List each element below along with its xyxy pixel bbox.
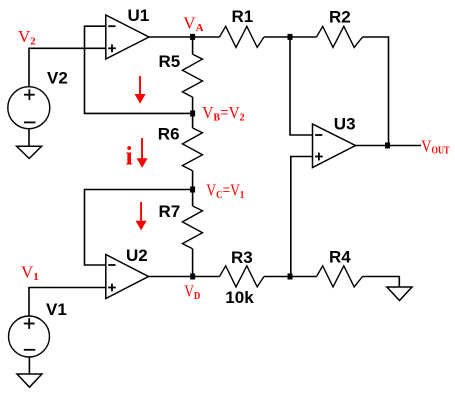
wire R6 to node VC <box>192 171 194 190</box>
svg-text:R5: R5 <box>159 52 181 71</box>
svg-text:U3: U3 <box>334 114 356 133</box>
wire R5 to node VB <box>192 97 194 113</box>
wire V2 to ground <box>28 129 30 146</box>
wire junction to R4 <box>290 276 317 278</box>
node VD <box>184 274 200 303</box>
resistor R6 <box>158 125 203 171</box>
wire U1 feedback (minus input to node VB) <box>85 26 191 113</box>
svg-text:U2: U2 <box>126 246 148 265</box>
wire R7 to node VD <box>192 249 194 277</box>
svg-text:R6: R6 <box>158 125 180 144</box>
wire V2 to U1 plus input <box>29 48 106 86</box>
resistor R1 <box>220 7 265 48</box>
source V2 <box>8 69 68 129</box>
current arrow through R5 <box>135 76 146 104</box>
wire U1 output to node VA <box>149 36 190 38</box>
node VC <box>190 180 244 201</box>
svg-text:VC=V1: VC=V1 <box>206 180 244 201</box>
node R1-R2 junction <box>288 34 293 40</box>
node VA <box>183 14 203 40</box>
wire R4 to ground <box>363 277 400 288</box>
svg-text:V1: V1 <box>46 300 67 319</box>
wire R1 to R1-R2 junction <box>264 36 290 38</box>
op-amp U2 <box>106 246 149 299</box>
svg-text:i: i <box>126 142 133 171</box>
wire R3 to R3-R4 junction <box>264 276 290 278</box>
wire VB to R6 <box>192 113 194 128</box>
resistor R2 <box>317 7 363 47</box>
ground at R4 <box>387 287 412 301</box>
resistor R3 value 10k <box>220 248 265 307</box>
svg-text:R3: R3 <box>231 248 253 267</box>
wire VC to R7 <box>192 190 194 207</box>
wire V1 to U2 plus input <box>29 288 106 317</box>
svg-text:R7: R7 <box>159 202 181 221</box>
resistor R5 <box>159 52 203 97</box>
wire V1 to ground <box>28 357 30 374</box>
svg-text:V2: V2 <box>47 69 68 88</box>
node VB <box>190 103 245 124</box>
svg-text:10k: 10k <box>225 288 254 307</box>
wire U2 feedback (node VC to U2 minus input) <box>85 190 193 266</box>
wire junction to U3 minus input <box>290 37 313 135</box>
op-amp U3 <box>313 114 356 167</box>
op-amp U1 <box>106 6 149 59</box>
svg-text:R1: R1 <box>232 7 254 26</box>
svg-text:R2: R2 <box>329 7 351 26</box>
resistor R7 <box>159 202 203 249</box>
current arrow through R6 <box>137 138 148 168</box>
ground at V2 <box>17 146 42 158</box>
resistor R4 <box>317 247 363 287</box>
wire VD to R3 <box>193 276 220 278</box>
svg-text:R4: R4 <box>329 247 351 266</box>
wire VA to R1 <box>193 36 220 38</box>
wire U2 output to node VD <box>149 276 191 278</box>
node U3 output junction <box>385 143 390 149</box>
ground at V1 <box>17 374 42 387</box>
svg-text:U1: U1 <box>128 6 150 25</box>
source V1 <box>9 300 67 357</box>
wire R2 to U3 output junction <box>363 37 389 146</box>
wire U3 output to VOUT <box>356 145 422 147</box>
current arrow through R7 <box>136 202 147 230</box>
wire junction to R2 <box>290 36 317 38</box>
wire VA down to R5 <box>192 37 194 54</box>
svg-text:VB=V2: VB=V2 <box>202 103 245 124</box>
node R3-R4 junction <box>288 274 293 280</box>
wire junction to U3 plus input <box>291 157 313 277</box>
